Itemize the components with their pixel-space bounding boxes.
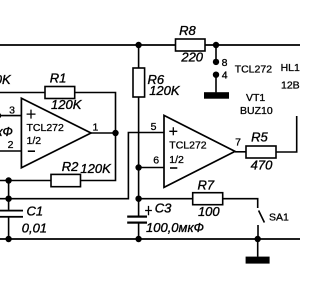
- junction dot pin 8: [213, 59, 219, 65]
- wire top supply bus: [0, 44, 300, 46]
- junction dot U1 output node: [112, 130, 118, 136]
- wire C1 bottom lead: [8, 217, 10, 239]
- svg-text:R5: R5: [251, 130, 268, 145]
- resistor R6: [133, 68, 145, 97]
- junction dot bottom bus SA1: [255, 236, 261, 242]
- svg-text:12В: 12В: [281, 79, 300, 91]
- svg-text:VT1: VT1: [246, 92, 265, 104]
- wire bottom ground bus: [0, 238, 300, 240]
- wire op-amp U2 pin 6 input: [139, 167, 164, 169]
- svg-text:120K: 120K: [0, 72, 12, 87]
- junction dot top bus R6: [135, 42, 141, 48]
- ground stem under SA1: [257, 239, 259, 257]
- svg-text:4: 4: [222, 70, 228, 82]
- wire op-amp U2 pin 7 output: [235, 151, 246, 153]
- svg-text:R1: R1: [50, 71, 67, 86]
- svg-text:120K: 120K: [149, 83, 181, 98]
- svg-text:6: 6: [153, 154, 159, 166]
- wire R7 left lead: [139, 198, 193, 200]
- wire R6 branch vertical from top bus: [138, 45, 140, 68]
- op-amp U1 plus input sign: [27, 110, 36, 119]
- junction dot R6 line R7 node: [135, 196, 141, 202]
- resistor R2: [51, 174, 81, 186]
- wire R5 right lead up to VT1 gate: [276, 116, 297, 152]
- switch SA1 bottom lead: [257, 225, 259, 239]
- wire R1 left lead: [0, 92, 45, 94]
- svg-text:7: 7: [235, 137, 241, 149]
- wire op-amp U2 pin 5 input from C-node: [0, 133, 164, 199]
- capacitor C1 bottom plate: [0, 216, 23, 218]
- svg-text:TCL272: TCL272: [169, 140, 207, 152]
- svg-text:мкФ: мкФ: [0, 124, 13, 139]
- junction dot pin 6 node: [135, 164, 141, 170]
- svg-text:C1: C1: [26, 203, 43, 218]
- junction dot top bus after R8: [213, 42, 219, 48]
- svg-text:3: 3: [9, 104, 15, 116]
- wire R2 left lead: [0, 180, 51, 182]
- junction dot left node R2: [5, 177, 11, 183]
- op-amp U2 minus input sign: [170, 167, 177, 169]
- svg-text:470: 470: [251, 157, 273, 172]
- svg-text:5: 5: [151, 121, 157, 133]
- svg-text:220: 220: [180, 50, 203, 65]
- capacitor C3 bottom plate: [127, 222, 147, 224]
- svg-text:0,01: 0,01: [22, 221, 47, 236]
- svg-text:R2: R2: [62, 159, 79, 174]
- svg-text:C3: C3: [155, 200, 172, 215]
- capacitor C3 top plate: [127, 216, 147, 218]
- op-amp U1 minus input sign: [28, 150, 35, 152]
- wire op-amp U1 pin 1 output: [91, 132, 116, 134]
- junction dot bottom bus C3: [135, 236, 141, 242]
- svg-text:R7: R7: [197, 177, 214, 192]
- svg-text:2: 2: [8, 139, 14, 151]
- ground under SA1: [246, 257, 270, 264]
- wire pin 8 supply drop: [215, 45, 217, 59]
- svg-text:R8: R8: [179, 23, 196, 38]
- svg-text:TCL272: TCL272: [27, 122, 65, 134]
- wire op-amp U1 pin 2 input: [0, 150, 21, 152]
- op-amp U1: [21, 98, 91, 168]
- resistor R7: [193, 193, 223, 205]
- svg-text:120K: 120K: [51, 97, 83, 112]
- svg-text:100: 100: [198, 204, 220, 219]
- op-amp U2: [164, 115, 235, 187]
- svg-text:HL1: HL1: [281, 62, 300, 74]
- wire left node vertical to C1: [8, 181, 10, 210]
- junction dot pin 4: [213, 72, 219, 78]
- junction half dot pin 3 left edge: [0, 112, 1, 118]
- junction dot bottom bus C1: [5, 236, 11, 242]
- wire R7 right lead to switch: [223, 199, 258, 208]
- wire R1 right lead and feedback vertical to R2: [75, 93, 116, 181]
- wire pin 4 to ground: [215, 78, 217, 93]
- op-amp U2 plus input sign: [169, 127, 177, 135]
- svg-text:BUZ10: BUZ10: [240, 105, 273, 117]
- resistor R8: [176, 39, 206, 51]
- resistor R1: [45, 87, 75, 99]
- svg-text:100,0мкФ: 100,0мкФ: [146, 220, 204, 235]
- wire R6 bottom vertical down to C3: [138, 97, 140, 216]
- svg-text:1: 1: [92, 122, 98, 134]
- svg-text:1/2: 1/2: [27, 135, 42, 147]
- wire op-amp U1 pin 3 input: [0, 115, 21, 117]
- svg-text:8: 8: [222, 57, 228, 69]
- svg-text:SA1: SA1: [269, 212, 289, 224]
- svg-text:TCL272: TCL272: [235, 63, 273, 75]
- svg-text:1/2: 1/2: [169, 154, 184, 166]
- wire C3 bottom lead: [138, 224, 140, 240]
- capacitor C1 top plate: [0, 210, 23, 212]
- resistor R5: [246, 146, 276, 158]
- junction dot left node C1: [5, 196, 11, 202]
- svg-text:120K: 120K: [80, 161, 112, 176]
- switch SA1 blade: [259, 211, 265, 223]
- capacitor C3 polarity plus sign: [145, 206, 152, 215]
- ground under pin 4: [204, 92, 229, 99]
